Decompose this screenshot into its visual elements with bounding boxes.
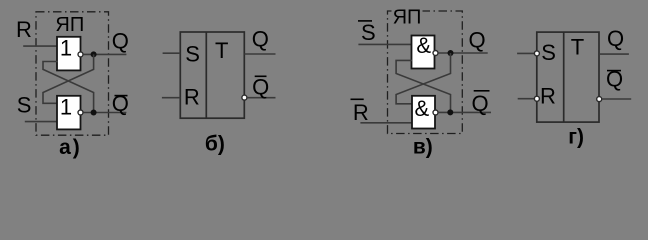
svg-text:T: T <box>215 38 228 63</box>
inversion bubble DD2.1 output <box>433 51 438 56</box>
wire R input (fig b) <box>162 97 180 99</box>
wire Q output (fig v) <box>438 52 488 54</box>
output label notQ (fig v) <box>472 91 490 116</box>
dashed enclosure box (fig a) <box>36 12 109 135</box>
inversion bubble notQ output (fig g) <box>597 97 602 102</box>
svg-text:г): г) <box>568 126 584 149</box>
wire cross-coupling from DD1.2 output to DD1.1 input (fig a) <box>43 62 94 113</box>
svg-text:Q: Q <box>472 91 489 116</box>
wire cross-coupling from DD1.1 output to DD1.2 input (fig a) <box>43 54 94 103</box>
NOR gate DD1.2 box (fig a bottom) <box>57 96 81 130</box>
NAND gate DD2.1 box (fig v top) <box>412 36 435 69</box>
svg-text:ЯП: ЯП <box>55 14 84 36</box>
wire notR input (fig v) <box>360 122 412 124</box>
svg-text:S: S <box>541 40 556 65</box>
flip-flop body box (fig g) <box>537 32 599 122</box>
dashed enclosure box (fig v) <box>388 8 463 134</box>
inversion bubble S input (fig g) <box>534 51 539 56</box>
NOR gate DD1.1 box (fig a top) <box>57 37 81 71</box>
wire S input (fig a) <box>25 121 58 123</box>
wire notQ output (fig b) <box>247 97 276 99</box>
wire notQ output (fig v) <box>438 111 491 113</box>
NAND gate DD2.2 box (fig v bottom) <box>412 96 435 129</box>
node Q junction (fig v) <box>448 50 454 56</box>
svg-text:1: 1 <box>60 95 72 120</box>
flip-flop body box (fig b) <box>180 32 244 118</box>
svg-text:S: S <box>185 41 200 66</box>
node notQ junction (fig a) <box>91 110 97 116</box>
wire R input (fig a) <box>23 45 57 47</box>
svg-text:R: R <box>16 17 32 42</box>
wire cross-coupling from DD2.1 output to DD2.2 input (fig v) <box>396 53 450 104</box>
inversion bubble R input (fig g) <box>534 96 539 101</box>
svg-text:б): б) <box>205 132 225 155</box>
node notQ junction (fig v) <box>447 109 453 115</box>
input label notR (fig v) <box>351 99 369 125</box>
svg-text:1: 1 <box>60 36 72 61</box>
svg-text:S: S <box>361 20 376 45</box>
svg-text:ЯП: ЯП <box>393 6 422 28</box>
svg-text:&: & <box>416 33 431 58</box>
wire Q output (fig g) <box>599 53 629 55</box>
svg-text:Q: Q <box>112 29 129 54</box>
divider line (fig b) <box>205 32 207 118</box>
svg-text:Q: Q <box>607 26 624 51</box>
wire notQ output (fig g) <box>602 98 631 100</box>
inversion bubble notQ output (fig b) <box>242 95 247 100</box>
output label notQ (fig g) <box>606 67 623 92</box>
input label notS (fig v) <box>358 20 376 45</box>
svg-text:R: R <box>184 85 200 110</box>
svg-text:R: R <box>540 84 556 109</box>
svg-text:S: S <box>17 93 32 118</box>
output label notQ (fig a) <box>112 91 129 116</box>
svg-text:R: R <box>353 100 369 125</box>
svg-text:Q: Q <box>469 28 486 53</box>
svg-text:Q: Q <box>252 26 269 51</box>
wire S input (fig g) <box>517 52 534 54</box>
inversion bubble DD2.2 output <box>433 110 438 115</box>
wire R input (fig g) <box>518 98 534 100</box>
wire S input (fig b) <box>163 52 181 54</box>
inversion bubble DD1.2 output <box>78 110 83 115</box>
divider line (fig g) <box>563 32 565 122</box>
svg-text:T: T <box>571 34 584 59</box>
inversion bubble DD1.1 output <box>78 52 83 57</box>
svg-text:в): в) <box>413 135 433 158</box>
wire Q output (fig a) <box>83 53 126 55</box>
output label notQ (fig b) <box>252 74 269 99</box>
node Q junction (fig a) <box>91 51 97 57</box>
svg-text:а): а) <box>59 136 82 159</box>
wire notQ output (fig a) <box>83 112 126 114</box>
wire notS input (fig v) <box>358 43 412 45</box>
wire Q output (fig b) <box>244 53 275 55</box>
svg-text:&: & <box>414 96 429 121</box>
svg-text:Q: Q <box>252 74 269 99</box>
wire cross-coupling from DD2.2 output to DD2.1 input (fig v) <box>396 60 450 112</box>
